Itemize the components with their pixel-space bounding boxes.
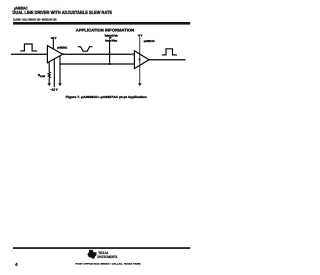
output waveform square pulse [162,49,177,55]
svg-text:SLEW: SLEW [40,75,45,78]
wire: slew pin lower [48,78,50,83]
wire: +5 V through receiver to ground [139,37,141,83]
driver U1 triangle [47,46,62,63]
wire: complementary output vertical [59,56,61,84]
junction dot on complementary output [59,63,61,65]
trapezoid slew-limited waveform [78,47,93,52]
wire: input to driver [11,53,47,55]
svg-text:Parallel Wires: Parallel Wires [105,39,118,42]
junction dot at driver output apex [62,53,64,55]
TI logo Texas map [87,250,96,259]
footer rule [13,247,190,249]
wire: VCC- pin [53,59,55,87]
svg-text:μA9637AC: μA9637AC [144,40,155,43]
junction dot leader/top line [109,53,111,55]
resistor RSLEW zigzag [48,72,50,78]
svg-text:+5 V: +5 V [138,33,143,37]
svg-text:APPLICATION INFORMATION: APPLICATION INFORMATION [76,27,135,32]
svg-text:SLLS098B – D2912, FEBRUARY 199: SLLS098B – D2912, FEBRUARY 1990 – REVISE… [13,17,57,21]
ground arrow under receiver [138,83,142,86]
svg-text:μA9638AC: μA9638AC [57,47,67,50]
leader line from label [109,42,111,64]
input waveform square pulse [20,44,37,51]
arrow to -12V (right) [58,83,62,86]
svg-text:Figure 7. μA9638AC–μA9637AC pt: Figure 7. μA9638AC–μA9637AC pt-pt Applic… [66,95,147,99]
page background [0,0,213,275]
receiver input polarity mark [139,59,141,61]
svg-text:–12 V: –12 V [50,87,58,91]
wire: +12 V to driver [52,39,54,49]
arrow to -12V (left) [47,83,51,86]
svg-text:INSTRUMENTS: INSTRUMENTS [97,255,117,259]
wire: bottom line of pair [60,63,134,65]
wire: top line of pair (driver output) [63,53,132,55]
receiver U2 inverting input bubble [132,53,134,55]
receiver U2 triangle [134,51,149,69]
junction dot leader/bottom line [109,63,111,65]
wire: slew pin upper [48,62,50,72]
svg-text:DUAL LINE DRIVER WITH ADJUSTAB: DUAL LINE DRIVER WITH ADJUSTABLE SLEW RA… [13,10,113,15]
header: black bar [13,22,190,25]
wire: receiver output [149,59,186,61]
svg-text:POST OFFICE BOX 655303 • DALLA: POST OFFICE BOX 655303 • DALLAS, TEXAS 7… [76,263,142,266]
svg-text:4: 4 [15,262,18,267]
